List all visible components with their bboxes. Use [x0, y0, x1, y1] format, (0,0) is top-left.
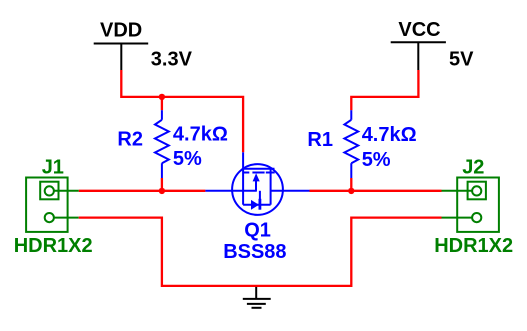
- wire VCC to R1 top: [351, 70, 418, 110]
- svg-text:R2: R2: [117, 128, 143, 150]
- svg-text:4.7kΩ: 4.7kΩ: [173, 123, 228, 145]
- svg-text:4.7kΩ: 4.7kΩ: [362, 124, 417, 146]
- junction dot R2 bottom node A: [159, 188, 165, 194]
- junction dot R1 bottom node B: [348, 188, 354, 194]
- wire R2 top red stub: [161, 97, 163, 110]
- pin 2 stub J2: [442, 217, 473, 219]
- drain lead right: [271, 190, 310, 192]
- body diode cathode bar: [258, 199, 261, 210]
- pin 1 stub J1: [54, 190, 79, 192]
- substrate arrow head: [253, 173, 260, 181]
- svg-text:J2: J2: [462, 156, 484, 178]
- junction dot top of R2: [159, 94, 165, 100]
- body diode cathode link: [259, 191, 261, 200]
- bottom bar: [243, 204, 271, 206]
- resistor R1: [344, 110, 358, 178]
- svg-text:VDD: VDD: [100, 20, 142, 42]
- svg-text:HDR1X2: HDR1X2: [14, 235, 93, 257]
- pin 1 stub J2: [442, 190, 473, 192]
- body diode triangle: [251, 200, 259, 210]
- wire J1 pin2 to ground rail: [79, 218, 442, 286]
- channel dash 2: [252, 172, 264, 174]
- wire R2 bottom red stub: [161, 178, 163, 191]
- source lead left: [205, 190, 256, 192]
- ground: [243, 287, 271, 308]
- svg-text:Q1: Q1: [244, 219, 271, 241]
- transistor Q1 BSS88: [205, 152, 309, 215]
- wire R1 bottom red stub: [350, 178, 352, 191]
- power symbol VDD: [94, 44, 149, 71]
- channel dash 1: [244, 172, 250, 174]
- gate bar: [243, 168, 274, 170]
- wire VDD to gate elbow: [121, 70, 243, 152]
- svg-text:3.3V: 3.3V: [151, 49, 193, 71]
- svg-text:HDR1X2: HDR1X2: [434, 235, 513, 257]
- pin stub gate: [242, 152, 244, 169]
- svg-text:VCC: VCC: [398, 19, 440, 41]
- drain vertical: [270, 169, 272, 205]
- circle body Q1: [232, 164, 283, 215]
- channel dash 3: [266, 172, 275, 174]
- connector J1: [26, 178, 79, 232]
- resistor R2: [155, 110, 169, 178]
- wire J1 pin1 to node A: [79, 190, 206, 192]
- pin 2 stub J1: [54, 217, 79, 219]
- substrate arrow stem: [255, 181, 257, 191]
- connector J2: [442, 178, 499, 232]
- wire node B to J2 pin1: [310, 190, 442, 192]
- power symbol VCC: [391, 42, 446, 70]
- svg-text:R1: R1: [307, 129, 333, 151]
- gate vertical through symbol: [242, 169, 244, 205]
- svg-text:5V: 5V: [449, 49, 474, 71]
- svg-text:BSS88: BSS88: [223, 241, 286, 263]
- svg-text:5%: 5%: [173, 148, 202, 170]
- svg-text:J1: J1: [42, 156, 64, 178]
- svg-text:5%: 5%: [362, 149, 391, 171]
